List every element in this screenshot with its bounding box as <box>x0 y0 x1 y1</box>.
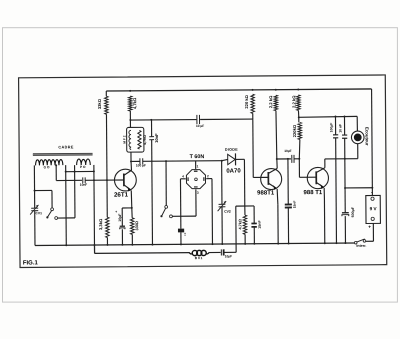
capacitor CV2 <box>219 203 226 205</box>
ferrite rod bar <box>33 153 93 156</box>
node CV2 bus <box>221 243 223 245</box>
wire Q3 collector line <box>325 158 358 160</box>
svg-text:+: + <box>368 225 371 230</box>
node PO left on link <box>74 171 76 173</box>
node C12-batl <box>344 187 346 189</box>
capacitor C10 10uF <box>291 155 293 163</box>
switch S2 contact b <box>170 215 173 218</box>
node C12-col <box>344 158 346 160</box>
node rail-R6 <box>275 89 277 91</box>
capacitor C3 10uF series <box>196 115 198 124</box>
wire C13 upper <box>344 188 346 213</box>
wire feedback right <box>200 118 253 120</box>
Q3 collector <box>316 168 325 173</box>
wire link GO-PO <box>66 170 94 172</box>
svg-text:M F 2: M F 2 <box>122 135 126 143</box>
node C1-PO junction <box>93 179 95 181</box>
resistor R8 220k <box>298 122 302 139</box>
svg-text:10nF: 10nF <box>80 183 88 187</box>
wire cathode <box>236 158 245 160</box>
switch S2 contact a <box>165 205 168 208</box>
node C2 bus <box>151 244 153 246</box>
resistor R7 2.2k <box>297 95 301 110</box>
transistor V1 T60N octagon <box>186 170 205 189</box>
svg-text:CV2: CV2 <box>224 210 231 214</box>
node Q2 collector <box>276 158 278 160</box>
coil PO <box>77 159 91 165</box>
wire GO right end down <box>65 165 68 245</box>
wire speaker bottom <box>357 144 359 159</box>
wire GO tap down <box>55 165 57 180</box>
svg-text:330Ω: 330Ω <box>135 221 139 230</box>
node C4 bus <box>121 244 123 246</box>
svg-text:3: 3 <box>197 191 199 195</box>
transistor Q1 26T1 circle <box>114 169 136 191</box>
capacitor CV1 <box>31 207 38 209</box>
diode D1 bar <box>234 153 236 165</box>
wire C12 mid <box>344 138 346 188</box>
border frame <box>19 75 387 268</box>
wire R8 down <box>298 140 301 159</box>
wire Q2 top line <box>277 158 291 160</box>
wire C9 drop <box>287 159 289 204</box>
wire R11 top <box>244 206 246 215</box>
Q1 collector <box>124 170 132 175</box>
svg-text:9 V: 9 V <box>370 206 378 211</box>
V1 center dot <box>195 178 198 181</box>
switch S1 contact a <box>51 208 54 211</box>
svg-text:4,7kΩ: 4,7kΩ <box>238 219 242 229</box>
inductor B01 <box>189 253 192 254</box>
wire C4 to bus <box>121 229 123 245</box>
node C6 bus <box>180 243 182 245</box>
node GO right bus <box>65 244 67 246</box>
resistor R6 2.2k <box>274 95 278 110</box>
resistor R3 3.3k <box>106 217 110 237</box>
svg-text:100µF: 100µF <box>329 123 333 133</box>
wire C1 to base <box>85 179 114 181</box>
wire R3 to bus <box>106 238 108 245</box>
node GO tap <box>55 164 57 166</box>
node C12 top <box>343 115 345 117</box>
svg-text:220 kΩ: 220 kΩ <box>244 94 249 108</box>
V1 pin2 wire <box>206 178 212 180</box>
switch S1 lever <box>48 211 52 217</box>
Q1 base wire <box>114 179 123 181</box>
svg-text:2,2 kΩ: 2,2 kΩ <box>291 95 296 108</box>
svg-text:10µF: 10µF <box>118 213 122 222</box>
battery terminal top <box>371 197 374 200</box>
wire feedback <box>130 119 196 122</box>
wire MF2 bottom <box>130 152 132 161</box>
wire C9 bus <box>287 208 289 244</box>
node FB corner <box>129 119 131 121</box>
transistor Q3 circle <box>307 167 328 188</box>
resistor R2 4.7k <box>128 96 132 111</box>
node S2 branch <box>165 160 167 162</box>
node MF2-100pF <box>130 160 132 162</box>
svg-text:988 T1: 988 T1 <box>304 190 323 196</box>
svg-text:33kΩ: 33kΩ <box>97 98 102 109</box>
node diode anode <box>221 160 223 162</box>
wire PO right down <box>93 165 96 253</box>
V1 pin4 mark <box>187 177 189 181</box>
wire supply rail <box>106 89 371 91</box>
wire R7-R8 <box>297 110 299 117</box>
wire CV2 drop <box>221 161 223 204</box>
V1 pin1 mark <box>194 170 198 172</box>
V1 pin3 mark <box>194 186 198 188</box>
svg-text:Interr.: Interr. <box>356 244 366 248</box>
wire S1-b to PO left <box>58 217 75 219</box>
V1 pin2 mark <box>203 177 205 181</box>
capacitor C4 10uF <box>120 225 125 227</box>
svg-text:15nF: 15nF <box>258 220 262 229</box>
svg-text:FIG.1: FIG.1 <box>23 260 39 266</box>
node C11 top <box>334 116 336 118</box>
svg-text:2,2 kΩ: 2,2 kΩ <box>268 95 273 108</box>
wire battery bottom <box>372 223 374 241</box>
svg-text:10 µF: 10 µF <box>196 124 204 128</box>
capacitor C7 15nF <box>251 222 256 224</box>
svg-text:T 60N: T 60N <box>190 154 205 160</box>
wire C13 lower <box>344 216 346 243</box>
Q2 base bar <box>267 172 269 185</box>
transformer MF2 box <box>127 127 144 152</box>
switch S2 lever <box>162 208 166 216</box>
wire battery link <box>345 187 372 189</box>
svg-text:15nF: 15nF <box>293 201 297 209</box>
node rail-R5 <box>252 89 254 91</box>
wire base node down <box>106 180 108 217</box>
wire C10 right <box>294 158 299 160</box>
capacitor C8 10uF <box>220 249 222 255</box>
resistor R10 330 <box>130 218 134 235</box>
svg-text:1: 1 <box>197 164 199 168</box>
svg-text:10 nF: 10 nF <box>338 124 342 133</box>
wire low right <box>224 251 236 253</box>
diode D1 triangle <box>228 154 236 164</box>
svg-text:0A70: 0A70 <box>226 168 241 174</box>
V1 pin4 wire <box>180 178 185 180</box>
wire S2-b to pin3 <box>172 215 196 217</box>
wire Q1e to R10 <box>131 208 133 218</box>
node C13 bus <box>344 242 346 244</box>
wire MF2 to collector <box>130 161 132 170</box>
wire det line a <box>131 160 140 162</box>
capacitor C5 100pF <box>139 158 141 164</box>
svg-text:4: 4 <box>182 174 184 178</box>
wire CV1 to bus <box>34 211 36 246</box>
svg-text:10µF: 10µF <box>225 254 232 258</box>
resistor R5 220k <box>251 94 255 113</box>
Q2 collector wire <box>276 159 278 168</box>
node C11 bus <box>335 242 337 244</box>
wire R5 to Q2 base <box>252 119 254 177</box>
svg-text:Ecouteur: Ecouteur <box>364 127 369 146</box>
Q2 emitter wire <box>276 189 279 205</box>
svg-text:CADRE: CADRE <box>58 145 74 149</box>
wire CV2 bus <box>221 207 223 244</box>
wire ground bus <box>35 243 354 246</box>
transistor Q2 circle <box>261 168 282 189</box>
capacitor C9 15nF <box>285 203 292 205</box>
capacitor C2 10nF <box>149 136 154 138</box>
node R10 bus <box>131 244 133 246</box>
wire C7 top <box>253 206 255 223</box>
Q3 collector wire <box>324 159 326 168</box>
svg-text:988T1: 988T1 <box>257 190 275 196</box>
transformer MF2 coil <box>129 130 131 149</box>
page scan outline <box>3 28 398 302</box>
svg-text:+: + <box>115 210 117 214</box>
node base bias junction <box>106 179 108 181</box>
wire low line <box>95 252 190 255</box>
wire R2 down <box>129 111 131 127</box>
svg-text:100 pF: 100 pF <box>136 163 146 167</box>
V1 pin1 wire <box>195 161 197 169</box>
wire low mid <box>209 251 221 253</box>
Q2 emitter <box>269 183 277 188</box>
svg-text:DIODE: DIODE <box>225 148 238 152</box>
svg-text:220kΩ: 220kΩ <box>292 124 297 137</box>
node Q1 emitter branch <box>131 207 133 209</box>
wire C2 upper <box>151 120 153 137</box>
switch S1 contact b <box>55 217 58 220</box>
svg-text:4,7kΩ: 4,7kΩ <box>143 135 147 145</box>
node pin2 bus <box>211 243 213 245</box>
wire GO left end down <box>33 165 35 190</box>
wire R6 down <box>275 111 278 159</box>
svg-text:10µF: 10µF <box>284 149 291 153</box>
svg-text:500µF: 500µF <box>351 206 355 217</box>
coil GO <box>36 160 63 166</box>
wire R11 bus <box>244 234 246 243</box>
node Q3e bus <box>324 242 326 244</box>
node R11 bus <box>244 243 246 245</box>
Q3 emitter wire <box>323 188 325 199</box>
svg-text:4,7kΩ: 4,7kΩ <box>132 97 137 109</box>
wire anode <box>222 159 228 160</box>
wire S2 drop <box>165 161 167 205</box>
switch S3 lever <box>356 239 364 242</box>
wire R1 to base node <box>105 114 108 180</box>
wire C11 lower <box>335 138 338 243</box>
node C9 branch <box>287 158 289 160</box>
wire emitter jog <box>122 207 132 209</box>
wire det line b <box>143 160 222 163</box>
speaker earphone <box>351 131 364 144</box>
Q3 emitter <box>316 182 324 187</box>
node Q3 base node <box>298 158 300 160</box>
wire low from PO <box>93 245 95 253</box>
wire det node <box>236 205 254 207</box>
wire C12 upper <box>343 116 345 134</box>
svg-text:P O: P O <box>80 165 86 169</box>
wire C7 bus <box>253 227 255 244</box>
node R3 bus <box>106 244 108 246</box>
node feedback C2 <box>150 119 152 121</box>
node rail-R7 <box>297 89 299 91</box>
node CV1 top branch <box>34 190 36 192</box>
wire C6 to bus <box>180 232 182 244</box>
node C9 bus <box>288 242 290 244</box>
wire CV1 upper <box>34 191 36 209</box>
switch S3 contact b <box>363 240 366 243</box>
wire speaker top <box>356 116 358 131</box>
wire speaker rail <box>299 115 357 118</box>
Q1 emitter <box>124 185 131 190</box>
svg-text:3,3kΩ: 3,3kΩ <box>98 218 103 230</box>
svg-text:G O: G O <box>44 165 50 169</box>
node C7 bus <box>253 243 255 245</box>
svg-text:2: 2 <box>207 174 209 178</box>
wire C11 upper <box>334 117 336 135</box>
capacitor C1 10nF <box>82 177 84 183</box>
node batt link <box>371 187 373 189</box>
Q3 base bar <box>315 171 317 184</box>
svg-text:10nF: 10nF <box>154 133 159 143</box>
wire branch to switch S1 <box>35 189 52 191</box>
Q2 collector <box>268 168 277 173</box>
capacitor C12 10nF <box>342 134 347 136</box>
node Q2e bus <box>277 243 279 245</box>
node link right <box>93 170 95 172</box>
resistor R11 4.7k pot <box>243 215 247 234</box>
svg-text:CV1: CV1 <box>36 211 43 215</box>
battery terminal bottom <box>371 217 374 220</box>
Q1 base bar <box>123 173 125 186</box>
capacitor C11 100uF <box>333 134 338 136</box>
node spk rail start <box>298 116 300 118</box>
wire R10 bus <box>131 234 133 244</box>
node PO right bus <box>93 244 95 246</box>
battery B1 box <box>366 195 381 223</box>
wire Q3 base <box>298 159 300 177</box>
resistor R1 33k <box>105 96 109 114</box>
capacitor C13 500uF <box>342 212 349 214</box>
capacitor C6 electrolytic <box>178 229 184 233</box>
node GO right link <box>65 171 67 173</box>
node rail-R2 <box>129 90 131 92</box>
switch S3 contact a <box>354 241 357 244</box>
resistor R4 in MF2 <box>138 130 141 149</box>
Q1 emitter wire <box>130 190 133 208</box>
wire rail drop <box>371 89 374 196</box>
svg-text:B 0 1: B 0 1 <box>195 256 203 260</box>
svg-text:26T1: 26T1 <box>114 192 129 199</box>
wire R1 top <box>105 91 107 96</box>
wire C2 lower <box>151 140 154 245</box>
